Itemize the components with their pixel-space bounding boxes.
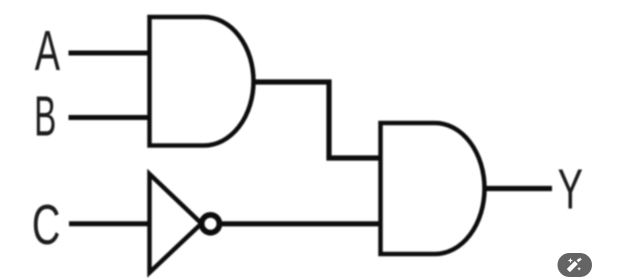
svg-text:C: C [32, 193, 60, 256]
svg-text:A: A [35, 19, 61, 82]
wire U1 output to U2 upper input (stepped) [254, 82, 381, 158]
wire output Y [485, 186, 553, 191]
svg-text:B: B [34, 85, 56, 148]
AND gate U1 [150, 17, 254, 146]
svg-text:Y: Y [558, 158, 583, 221]
inverter U3 triangle [150, 174, 202, 273]
magic wand icon [567, 257, 582, 272]
inverter U3 bubble [202, 215, 220, 233]
wire U3 output to U2 lower input [222, 221, 381, 226]
wire input A [69, 51, 150, 56]
wire input C [69, 221, 150, 226]
AND gate U2 [381, 123, 485, 254]
edit-tool pill button [558, 253, 593, 277]
wire input B [69, 115, 150, 120]
